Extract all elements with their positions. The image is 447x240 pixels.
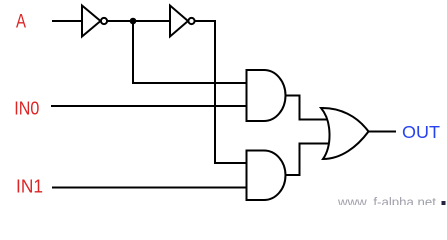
svg-text:www. f-alpha.net: www. f-alpha.net: [337, 195, 436, 206]
svg-text:IN1: IN1: [16, 175, 43, 196]
svg-text:OUT: OUT: [402, 122, 440, 142]
svg-text:IN0: IN0: [14, 98, 39, 119]
svg-text:A: A: [16, 12, 26, 33]
